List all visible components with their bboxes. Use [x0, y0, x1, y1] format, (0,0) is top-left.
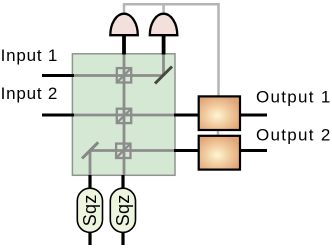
green enclosure box — [72, 54, 175, 176]
beam vertical from mirror M2 to box bottom — [89, 151, 92, 176]
beam vertical through BS1 BS2 BS3 — [123, 54, 126, 176]
beam horizontal from mirror M2 through BS3 to right edge — [90, 149, 175, 152]
beam splitter BS3 — [116, 144, 130, 158]
wire input 2 line — [42, 114, 74, 117]
wire input 1 line — [42, 74, 74, 77]
wire stem detector D2 — [162, 33, 166, 55]
wire squeezer 2 lower stem — [121, 230, 124, 245]
svg-text:Sqz: Sqz — [113, 194, 133, 226]
wire feedforward from detectors to modulators — [124, 4, 219, 96]
wire output 2 left segment — [174, 149, 199, 152]
wire output 1 left segment — [174, 114, 199, 117]
svg-text:Input 2: Input 2 — [1, 84, 59, 103]
beam horizontal from input 1 to mirror M1 — [72, 74, 164, 77]
detector D1 — [110, 14, 138, 36]
modulator EOM2 — [199, 136, 240, 170]
svg-text:Sqz: Sqz — [80, 194, 100, 226]
mirror M2 bottom-left (gray) — [82, 142, 98, 158]
wire squeezer 1 lower stem — [88, 230, 91, 245]
beam splitter BS1 — [117, 68, 131, 82]
squeezer Sqz1 — [77, 188, 102, 232]
mirror M1 top-right (dark) — [155, 67, 172, 84]
beam splitter BS2 — [117, 109, 131, 123]
svg-text:Output 2: Output 2 — [256, 125, 332, 144]
beam vertical from box top to mirror M1 — [162, 54, 165, 76]
wire stem detector D1 — [122, 33, 126, 55]
svg-text:Input 1: Input 1 — [1, 46, 59, 65]
squeezer Sqz2 — [110, 188, 135, 232]
wire stub between modulators — [217, 130, 220, 137]
svg-text:Output 1: Output 1 — [256, 87, 332, 106]
wire squeezer 1 upper stem — [88, 175, 91, 190]
detector D2 — [150, 14, 178, 36]
wire output 2 right segment — [240, 149, 267, 152]
modulator EOM1 — [199, 96, 240, 130]
wire squeezer 2 upper stem — [121, 175, 124, 190]
wire output 1 right segment — [240, 114, 267, 117]
beam horizontal from input 2 through BS2 to right edge — [72, 114, 175, 117]
wire stub detector 2 — [162, 4, 165, 15]
